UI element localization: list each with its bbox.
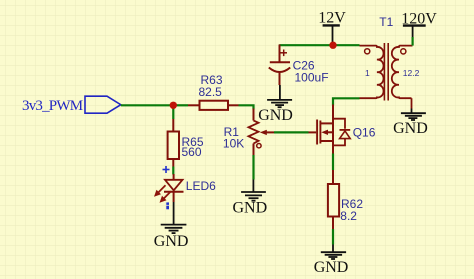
ground under R1 [233,180,268,217]
ground under transformer [393,109,428,137]
wire 12V rail (C26 to transformer) [279,44,359,46]
svg-text:GND: GND [258,107,293,124]
svg-text:GND: GND [233,200,268,217]
plus marker (LED anode) [163,166,170,173]
minus-i marker (LED cathode) [166,202,169,209]
core [383,43,385,101]
wire junction to R63 [173,104,188,106]
svg-text:T1: T1 [379,15,393,29]
transistor Q16 [309,105,376,155]
svg-text:1: 1 [365,68,370,78]
wire R63 to pot R1 top [239,105,254,109]
potentiometer R1 [223,109,274,156]
ground under C26 [258,85,293,124]
svg-text:12.2: 12.2 [403,68,420,78]
junction dot at PWM node [170,102,177,109]
gate bar [316,120,318,145]
transformer T1 [360,15,420,101]
right vertical (drain-source) [332,118,334,154]
ground under R62 [314,245,349,276]
svg-text:82.5: 82.5 [199,85,223,99]
120V power port [401,10,437,37]
net label 3v3_PWM [22,96,121,114]
right winding [392,46,413,99]
capacitor C26 [269,45,329,86]
wire transformer left bottom to Q16 drain [333,98,360,105]
wire R62 to ground [332,229,334,245]
wire wiper to Q16 gate [274,131,309,133]
wire 120V to transformer [412,37,414,46]
LED LED6 [164,174,216,202]
body diode [333,119,345,146]
svg-text:Q16: Q16 [353,125,376,139]
wire pennant to junction [121,104,174,106]
wire R65 to LED6 [172,167,174,175]
wire junction down to R65 [172,105,174,119]
resistor R65 [168,119,204,167]
wire pot bottom to ground [252,155,254,180]
left winding [360,46,384,99]
12V power port [318,9,346,42]
source arrow [321,130,328,135]
resistor R63 [188,73,239,110]
svg-text:GND: GND [154,233,189,250]
top stub [320,122,333,124]
channel bar [319,121,321,144]
LED emission arrows [154,185,171,203]
svg-text:12V: 12V [318,9,346,26]
right winding dot [401,49,406,54]
svg-text:LED6: LED6 [186,179,216,193]
bottom stub [320,140,333,142]
svg-text:GND: GND [314,259,349,276]
svg-text:10K: 10K [223,137,244,151]
gate pin [309,131,317,133]
svg-text:560: 560 [182,145,202,159]
resistor R62 [328,170,363,229]
svg-text:8.2: 8.2 [340,209,357,223]
left winding dot [365,49,370,54]
svg-text:GND: GND [393,120,428,137]
junction dot at 12V rail [329,42,336,49]
svg-text:3v3_PWM: 3v3_PWM [22,98,83,114]
wire Q16 source to R62 [332,154,334,171]
wire transformer right bottom to ground [411,98,413,108]
drain pin [332,105,334,119]
ground under LED6 [154,202,189,250]
svg-text:100uF: 100uF [295,70,329,84]
